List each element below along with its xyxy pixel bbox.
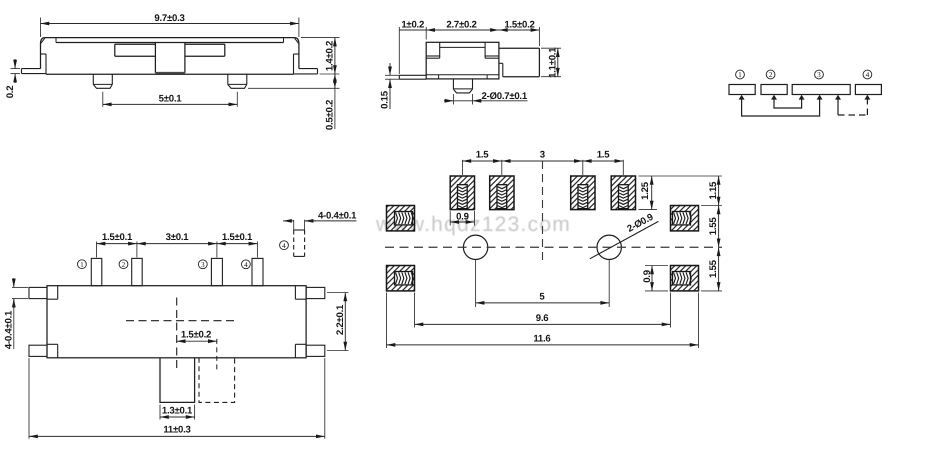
svg-text:0.9: 0.9 bbox=[642, 270, 653, 283]
svg-text:5: 5 bbox=[539, 292, 545, 303]
view A center slider block bbox=[154, 43, 156, 73]
view D corner notch bottom-left bbox=[57, 344, 59, 358]
svg-text:2: 2 bbox=[122, 260, 126, 269]
view D slider knob dashed alternate position bbox=[199, 358, 235, 403]
hole centre extension lines bbox=[475, 260, 477, 307]
view A right terminal bbox=[294, 53, 299, 55]
pin 2 number bbox=[119, 260, 128, 269]
svg-text:1±0.2: 1±0.2 bbox=[401, 20, 424, 31]
view A solder pin bump right bbox=[227, 74, 229, 84]
wiper contact arrow pin3 mid bbox=[817, 95, 823, 100]
view D terminal detail rectangle bbox=[294, 229, 305, 231]
dimension 1.1±0.1 extension lines bbox=[541, 47, 561, 49]
view D vertical centerline bbox=[176, 298, 178, 371]
dimension 3±0.1 extension lines bbox=[216, 242, 218, 258]
PCB mount pad lower-left inner paste area bbox=[395, 272, 413, 285]
pin 1 label bbox=[736, 70, 745, 79]
view A left corner chamfer bbox=[41, 38, 45, 44]
wire pin3 right stub bbox=[837, 99, 839, 116]
terminal pin 3 bbox=[211, 258, 222, 285]
view A body base line bbox=[46, 73, 294, 75]
dimension 1.15 bbox=[718, 176, 720, 206]
view D corner notch top-right bbox=[294, 286, 296, 300]
dimension 1.5±0.2 extension line bbox=[538, 27, 540, 46]
contact pad pin1 bbox=[729, 85, 755, 95]
dimension 2-Ø0.7±0.1 bbox=[444, 100, 453, 102]
view A body left edge bbox=[40, 44, 42, 69]
dimension 11.6 extension lines bbox=[386, 293, 388, 349]
wiper contact arrow pin3 right bbox=[835, 95, 841, 100]
dimension 1.25 bbox=[651, 176, 653, 210]
svg-text:9.7±0.3: 9.7±0.3 bbox=[154, 13, 184, 24]
svg-text:4-0.4±0.1: 4-0.4±0.1 bbox=[3, 310, 14, 349]
terminal pin 4 bbox=[252, 258, 263, 285]
dimension 4-0.4±0.1 left extension lines bbox=[12, 286, 28, 288]
svg-text:4: 4 bbox=[866, 70, 870, 79]
pin 4 number bbox=[242, 260, 251, 269]
dimension 9.7±0.3 extension lines bbox=[40, 18, 42, 38]
detail pin 4 number bbox=[280, 241, 289, 250]
PCB pad pin2 inner paste area bbox=[497, 185, 507, 209]
PCB hole right 2-Ø0.9 bbox=[597, 235, 621, 259]
PCB pad pin4 inner paste area bbox=[619, 185, 629, 209]
view A right corner chamfer bbox=[295, 38, 299, 44]
dimension 1.55 lower extension line bbox=[701, 290, 722, 292]
dimension 1.55 lower bbox=[718, 247, 720, 291]
svg-text:1: 1 bbox=[738, 70, 742, 79]
svg-text:1.55: 1.55 bbox=[708, 217, 719, 236]
svg-text:1.55: 1.55 bbox=[708, 259, 719, 278]
dimension 0.9 mount pad bbox=[651, 266, 653, 291]
dimension 0.9 pad width bbox=[450, 221, 474, 223]
view A inner contact plate right bbox=[185, 43, 225, 45]
view B bottom flange line bbox=[426, 74, 499, 76]
dimension 4-0.4±0.1 detail extension lines bbox=[293, 220, 295, 230]
wiper contact arrow pin4 bbox=[864, 95, 870, 100]
PCB mount pad lower-left outer bbox=[387, 266, 415, 291]
dimension 0.5±0.2 bbox=[334, 74, 336, 88]
dimension 11±0.3 extension lines bbox=[28, 358, 30, 439]
PCB horizontal centerline bbox=[385, 246, 722, 248]
dimension 1.5±0.1 pins 3-4 extension lines bbox=[256, 242, 258, 258]
dimension 0.15 bbox=[389, 63, 391, 75]
dimension 9.6 extension lines bbox=[414, 293, 416, 328]
svg-text:1.5: 1.5 bbox=[597, 149, 611, 160]
wiper contact arrow pin3 left bbox=[799, 95, 805, 100]
dimension 0.15 extension lines bbox=[385, 74, 399, 76]
svg-text:3±0.1: 3±0.1 bbox=[166, 232, 190, 243]
svg-text:0.15: 0.15 bbox=[379, 90, 390, 109]
dimension 2-Ø0.7±0.1 extension lines bbox=[452, 94, 454, 105]
svg-text:1.5±0.2: 1.5±0.2 bbox=[181, 329, 211, 340]
wire pin1 to pin3 bbox=[742, 99, 820, 117]
pin 3 number bbox=[198, 260, 207, 269]
dimension 2.2±0.1 extension lines bbox=[327, 292, 349, 294]
svg-text:1: 1 bbox=[80, 260, 84, 269]
wire pin2 to pin3 bbox=[774, 99, 802, 109]
dimension 1.1±0.1 bbox=[557, 48, 559, 76]
svg-text:1.5±0.1: 1.5±0.1 bbox=[222, 232, 253, 243]
dimension 1.4±0.2 bbox=[334, 38, 336, 74]
dimension 5±0.1 bbox=[103, 103, 238, 105]
dimension 2.2±0.1 bbox=[344, 293, 346, 351]
dimension 1.15 extension line bbox=[701, 205, 722, 207]
PCB pad pin2 outer bbox=[490, 176, 514, 210]
pin 3 label bbox=[815, 70, 824, 79]
svg-text:4-0.4±0.1: 4-0.4±0.1 bbox=[318, 210, 357, 221]
PCB hole left 2-Ø0.9 bbox=[463, 235, 487, 259]
view D horizontal centerline bbox=[126, 320, 236, 322]
label 2-Ø0.9 leader line bbox=[590, 221, 659, 258]
svg-text:2: 2 bbox=[769, 70, 773, 79]
PCB pad pin3 inner paste area bbox=[578, 185, 588, 209]
view D mount foot top-left bbox=[29, 287, 47, 298]
dimension 1.5±0.1 pins 1-2 extension lines bbox=[96, 242, 98, 258]
dimension 0.9 mount pad extension lines bbox=[645, 265, 668, 267]
view B left terminal foot bbox=[399, 74, 426, 76]
dimension 3±0.1 bbox=[137, 243, 217, 245]
pin 1 number bbox=[78, 260, 87, 269]
PCB pad pin1 outer bbox=[450, 176, 474, 210]
dimension 11±0.3 bbox=[29, 435, 325, 437]
dimension 1.5±0.2 bbox=[499, 29, 540, 31]
svg-text:1.3±0.1: 1.3±0.1 bbox=[162, 406, 193, 417]
dimension 1.5±0.1 pins 1-2 bbox=[97, 243, 137, 245]
svg-text:11.6: 11.6 bbox=[533, 334, 550, 345]
view A solder pin bump left bbox=[92, 74, 94, 84]
svg-text:5±0.1: 5±0.1 bbox=[159, 94, 183, 105]
svg-text:1.5: 1.5 bbox=[476, 149, 490, 160]
svg-text:2.7±0.2: 2.7±0.2 bbox=[446, 19, 476, 30]
view B slider knob bbox=[499, 47, 540, 49]
dimension 1.25 extension lines bbox=[639, 175, 723, 177]
PCB pad pin3 outer bbox=[571, 176, 595, 210]
svg-text:11±0.3: 11±0.3 bbox=[163, 425, 190, 436]
svg-text:3: 3 bbox=[817, 70, 821, 79]
dimension 1.5 pads 3-4 bbox=[583, 160, 624, 162]
dimension 1.5±0.1 pins 3-4 bbox=[217, 243, 258, 245]
view B cover recessed line bbox=[440, 46, 485, 48]
svg-text:1.5±0.1: 1.5±0.1 bbox=[102, 232, 133, 243]
view D mount foot top-right bbox=[306, 287, 325, 298]
dimension 1.55 upper bbox=[718, 206, 720, 248]
svg-text:2.2±0.1: 2.2±0.1 bbox=[335, 304, 346, 335]
dimension 1.5 pads 1-2 bbox=[462, 160, 501, 162]
svg-text:1.4±0.2: 1.4±0.2 bbox=[325, 41, 336, 71]
dimension 2.7±0.2 bbox=[426, 29, 499, 31]
svg-text:0.2: 0.2 bbox=[5, 86, 16, 99]
view B left cover tab bbox=[439, 42, 441, 58]
view D slider knob solid position bbox=[160, 358, 195, 403]
pin 2 label bbox=[766, 70, 775, 79]
view D mount foot bottom-right bbox=[306, 345, 325, 356]
dimension 1±0.2 extension lines bbox=[398, 27, 400, 74]
dimension 9.7±0.3 bbox=[41, 23, 299, 25]
svg-text:3: 3 bbox=[201, 260, 205, 269]
dimension 1.3±0.1 extension lines bbox=[159, 405, 161, 420]
contact pad pin4 bbox=[855, 85, 881, 95]
view A switch body top cover line bbox=[45, 37, 295, 39]
PCB mount pad lower-right inner paste area bbox=[673, 272, 691, 285]
dimension 11.6 bbox=[387, 344, 699, 346]
view A inner contact plate left bbox=[115, 43, 156, 45]
dimension 1.3±0.1 bbox=[160, 416, 195, 418]
svg-text:1.5±0.2: 1.5±0.2 bbox=[504, 19, 534, 30]
PCB pad pin1 inner paste area bbox=[458, 185, 468, 209]
dimension 1.5±0.2 knob travel bbox=[177, 340, 217, 342]
dimension 4-0.4±0.1 detail bbox=[283, 220, 294, 222]
dimension 9.6 bbox=[415, 323, 671, 325]
svg-text:9.6: 9.6 bbox=[536, 313, 549, 324]
view B right cover tab bbox=[484, 42, 486, 58]
view D mount foot bottom-left bbox=[29, 345, 47, 356]
view A body right edge bbox=[298, 44, 300, 69]
terminal pin 1 bbox=[91, 258, 102, 285]
dimension 0.9 pad width extension lines bbox=[449, 211, 451, 226]
PCB mount pad upper-left outer bbox=[387, 206, 415, 231]
svg-text:1.25: 1.25 bbox=[640, 181, 651, 200]
wire pin3 to pin4 dashed bbox=[838, 114, 867, 116]
svg-text:0.9: 0.9 bbox=[456, 212, 469, 223]
svg-text:4: 4 bbox=[244, 260, 248, 269]
terminal pin 2 bbox=[132, 258, 143, 285]
PCB mount pad upper-left inner paste area bbox=[395, 212, 413, 225]
view D body outline bbox=[47, 286, 306, 358]
svg-text:4: 4 bbox=[282, 241, 286, 250]
dimension 5 hole pitch bbox=[476, 302, 610, 304]
PCB vertical centerline bbox=[542, 161, 544, 262]
wiper contact arrow pin1 bbox=[739, 95, 745, 100]
PCB mount pad lower-right outer bbox=[671, 266, 699, 291]
pad pitch extension lines bbox=[461, 160, 463, 175]
svg-text:3: 3 bbox=[540, 149, 545, 160]
dimension 1.4±0.2 extension lines bbox=[301, 37, 340, 39]
view D alternate knob centerline bbox=[216, 339, 218, 370]
dimension 5±0.1 extension lines bbox=[102, 92, 104, 107]
dimension 0.2 extension lines bbox=[11, 68, 21, 70]
PCB mount pad upper-right inner paste area bbox=[673, 212, 691, 225]
view B body outline bbox=[426, 42, 499, 79]
pin 4 label bbox=[863, 70, 872, 79]
PCB mount pad upper-right outer bbox=[671, 206, 699, 231]
contact pad pin3 common bbox=[792, 85, 850, 95]
svg-text:0.5±0.2: 0.5±0.2 bbox=[325, 100, 336, 130]
view D corner notch top-left bbox=[57, 286, 59, 300]
dimension 3 pads 2-3 bbox=[502, 160, 583, 162]
svg-text:1.1±0.1: 1.1±0.1 bbox=[547, 47, 558, 78]
wiper contact arrow pin2 bbox=[771, 95, 777, 100]
dimension 1±0.2 bbox=[399, 29, 426, 31]
view B solder pin bump bbox=[452, 79, 454, 89]
svg-text:1.15: 1.15 bbox=[708, 181, 719, 200]
PCB pad pin4 outer bbox=[611, 176, 635, 210]
svg-text:2-Ø0.7±0.1: 2-Ø0.7±0.1 bbox=[482, 91, 528, 102]
dimension 0.2 bbox=[14, 59, 16, 69]
view D corner notch bottom-right bbox=[294, 344, 296, 358]
contact pad pin2 bbox=[761, 85, 787, 95]
dimension 0.5±0.2 extension line bbox=[248, 87, 340, 89]
view A left terminal bbox=[41, 53, 47, 55]
dimension 4-0.4±0.1 left bbox=[13, 278, 15, 287]
view A top cover inner line bbox=[56, 42, 284, 44]
